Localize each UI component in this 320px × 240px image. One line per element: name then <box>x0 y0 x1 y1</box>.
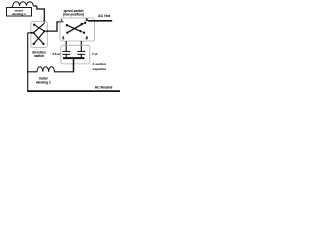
svg-text:7 uf: 7 uf <box>92 52 97 56</box>
motor winding 1 label box <box>7 8 32 17</box>
motor winding 2 coil L2 <box>37 67 54 72</box>
direction switch box <box>31 22 47 48</box>
wire left vertical (direction switch to neutral) <box>27 33 29 91</box>
motor winding 1 coil L1 <box>12 2 33 8</box>
svg-text:winding 2: winding 2 <box>35 80 51 84</box>
speed switch box <box>60 18 95 41</box>
wires speed switch to capacitor <box>65 41 67 51</box>
capacitor C1 3.5uf <box>62 50 70 52</box>
capacitor C2 7uf <box>77 50 85 52</box>
svg-text:AC Neutral: AC Neutral <box>95 86 113 90</box>
svg-text:3.5 uf: 3.5 uf <box>52 52 60 56</box>
svg-text:winding 1: winding 1 <box>11 12 26 16</box>
svg-text:1: 1 <box>62 36 64 40</box>
svg-text:2: 2 <box>86 36 88 40</box>
capacitor box <box>61 45 90 64</box>
capacitor stem to winding 2 <box>73 59 75 72</box>
wire coil to capacitor stem <box>54 71 74 73</box>
svg-text:switch: switch <box>34 54 44 58</box>
arrow into direction switch top <box>43 21 46 24</box>
svg-text:AC Hot: AC Hot <box>98 14 111 18</box>
svg-text:(low position): (low position) <box>63 13 84 17</box>
wire direction switch right to speed switch <box>47 22 61 31</box>
wire into direction switch left <box>28 32 31 34</box>
svg-text:capacitor: capacitor <box>93 67 108 71</box>
speed switch blades <box>67 25 81 31</box>
svg-text:2 section: 2 section <box>93 62 107 66</box>
svg-text:3: 3 <box>86 18 88 22</box>
direction switch contacts and blades <box>33 24 35 26</box>
wire winding2 horizontal <box>27 71 37 73</box>
wire winding1 to direction switch <box>33 6 44 21</box>
capacitor common bus <box>63 57 84 59</box>
